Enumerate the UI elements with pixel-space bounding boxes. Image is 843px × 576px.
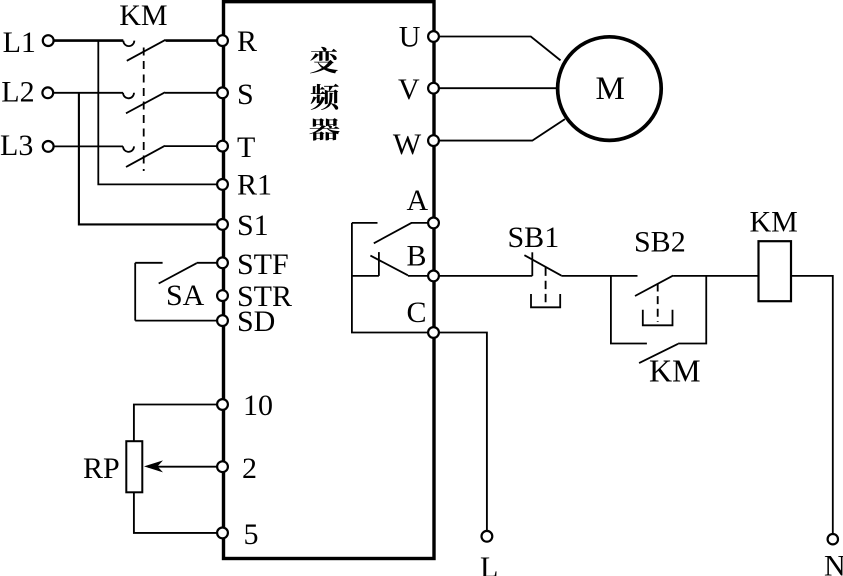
wire L1 to KM contact bbox=[54, 39, 123, 42]
svg-text:L1: L1 bbox=[3, 26, 36, 59]
wire SB1 to SB2 bbox=[561, 275, 637, 277]
svg-text:10: 10 bbox=[243, 389, 273, 422]
terminal T bbox=[217, 141, 228, 152]
KM auxiliary contact blade bbox=[639, 344, 678, 363]
contactor KM main contact 1 fixed arc bbox=[123, 41, 134, 47]
svg-text:KM: KM bbox=[750, 206, 798, 239]
contactor KM main contact 3 fixed arc bbox=[123, 146, 134, 152]
KM mechanical linkage dashed line bbox=[143, 48, 145, 172]
svg-text:SD: SD bbox=[237, 305, 275, 338]
terminal V bbox=[428, 83, 439, 94]
terminal C bbox=[428, 327, 439, 338]
terminal S1 bbox=[217, 219, 228, 230]
pushbutton SB2 plunger dashed bbox=[657, 284, 659, 323]
terminal SD bbox=[217, 315, 228, 326]
wire B to SB1 bbox=[439, 275, 532, 277]
potentiometer RP body bbox=[126, 441, 142, 492]
relay contact B-level horizontal bbox=[352, 275, 379, 277]
terminal STR bbox=[217, 290, 228, 301]
terminal N bbox=[828, 534, 838, 544]
svg-text:L3: L3 bbox=[0, 129, 33, 162]
svg-text:B: B bbox=[407, 240, 427, 273]
label 变频器 char 器 bbox=[309, 118, 339, 141]
wire SB2 to KM coil bbox=[673, 275, 758, 277]
terminal L3 bbox=[43, 141, 54, 152]
pushbutton SB1 plunger dashed bbox=[545, 268, 547, 307]
terminal R bbox=[217, 35, 228, 46]
svg-text:SA: SA bbox=[166, 279, 205, 312]
svg-text:S1: S1 bbox=[237, 209, 269, 242]
svg-text:KM: KM bbox=[119, 0, 167, 32]
terminal W bbox=[428, 135, 439, 146]
svg-text:5: 5 bbox=[244, 518, 259, 551]
KM auxiliary contact branch right bbox=[678, 276, 706, 344]
terminal 10 bbox=[217, 399, 228, 410]
svg-text:V: V bbox=[398, 73, 420, 106]
label 变频器 char 频 bbox=[311, 84, 339, 110]
terminal 5 bbox=[217, 528, 228, 539]
wire contact2 to S bbox=[165, 92, 217, 94]
wire V to motor bbox=[439, 87, 557, 89]
wire L3 to KM contact bbox=[54, 145, 123, 147]
svg-text:C: C bbox=[407, 296, 427, 329]
wire U to motor bbox=[439, 37, 561, 61]
terminal B bbox=[428, 271, 439, 282]
pushbutton SB2 button cup bbox=[643, 310, 673, 326]
terminal L1 bbox=[43, 35, 54, 46]
svg-text:U: U bbox=[399, 21, 421, 54]
svg-text:KM: KM bbox=[649, 353, 701, 389]
svg-text:R: R bbox=[237, 25, 257, 58]
svg-text:STF: STF bbox=[237, 248, 289, 281]
terminal L2 bbox=[42, 87, 53, 98]
label 变频器 char 变 bbox=[310, 47, 338, 74]
wire RP bottom to terminal 5 bbox=[134, 492, 217, 533]
pushbutton SB2 blade bbox=[635, 276, 673, 296]
svg-text:R1: R1 bbox=[237, 169, 272, 202]
motor M circle bbox=[558, 37, 662, 141]
terminal U bbox=[428, 31, 439, 42]
wire SA left rail bbox=[134, 263, 136, 321]
terminal S bbox=[217, 87, 228, 98]
svg-text:L: L bbox=[480, 551, 498, 576]
wire SA to SD bbox=[135, 320, 217, 322]
RP wiper arrowhead bbox=[144, 460, 163, 472]
svg-text:RP: RP bbox=[83, 452, 120, 485]
wire SA blade to STF bbox=[197, 262, 218, 264]
wire contact3 to T bbox=[165, 145, 217, 147]
wire L2 to KM contact bbox=[53, 92, 123, 94]
switch SA blade bbox=[159, 263, 197, 283]
wire KM coil to N bbox=[791, 276, 833, 534]
terminal STF bbox=[217, 257, 228, 268]
svg-text:SB1: SB1 bbox=[508, 221, 560, 254]
svg-text:W: W bbox=[393, 128, 422, 161]
contactor KM main contact 3 blade bbox=[126, 146, 165, 167]
svg-text:A: A bbox=[407, 184, 429, 217]
wire terminal 10 to RP bbox=[134, 405, 217, 442]
wire branch L2 to S1 bbox=[79, 93, 217, 225]
switch SA stub bbox=[135, 262, 162, 264]
inverter box U1 bbox=[224, 2, 435, 559]
pushbutton SB1 button cup bbox=[531, 294, 560, 307]
terminal L bbox=[482, 531, 493, 542]
svg-text:SB2: SB2 bbox=[634, 226, 686, 259]
wire branch L1 to R1 bbox=[98, 41, 217, 185]
terminal A bbox=[428, 218, 439, 229]
contactor KM main contact 2 blade bbox=[126, 92, 165, 113]
svg-text:N: N bbox=[824, 550, 843, 576]
pushbutton SB1 blade bbox=[524, 255, 561, 275]
pushbutton SB1 fixed tick bbox=[531, 252, 533, 276]
relay contact blade B bbox=[370, 256, 428, 276]
KM auxiliary contact branch left bbox=[611, 276, 647, 344]
terminal 2 bbox=[217, 461, 228, 472]
contactor KM main contact 2 fixed arc bbox=[123, 93, 134, 99]
wire contact1 to R bbox=[166, 39, 218, 42]
wire W to motor bbox=[439, 119, 565, 141]
svg-text:M: M bbox=[596, 71, 625, 107]
wire RP wiper from terminal 2 bbox=[148, 466, 217, 468]
terminal R1 bbox=[217, 179, 228, 190]
relay contact left rail to C bbox=[352, 223, 428, 333]
svg-text:S: S bbox=[237, 78, 254, 111]
relay contact B fixed stub bbox=[378, 252, 380, 276]
svg-text:2: 2 bbox=[242, 452, 257, 485]
relay contact blade A bbox=[374, 223, 428, 243]
wire C to L terminal bbox=[439, 333, 487, 531]
relay contact top fixed (A side) bbox=[352, 222, 378, 224]
contactor coil KM bbox=[759, 241, 792, 301]
svg-text:L2: L2 bbox=[1, 76, 34, 109]
svg-text:T: T bbox=[237, 131, 255, 164]
contactor KM main contact 1 blade bbox=[127, 40, 166, 61]
